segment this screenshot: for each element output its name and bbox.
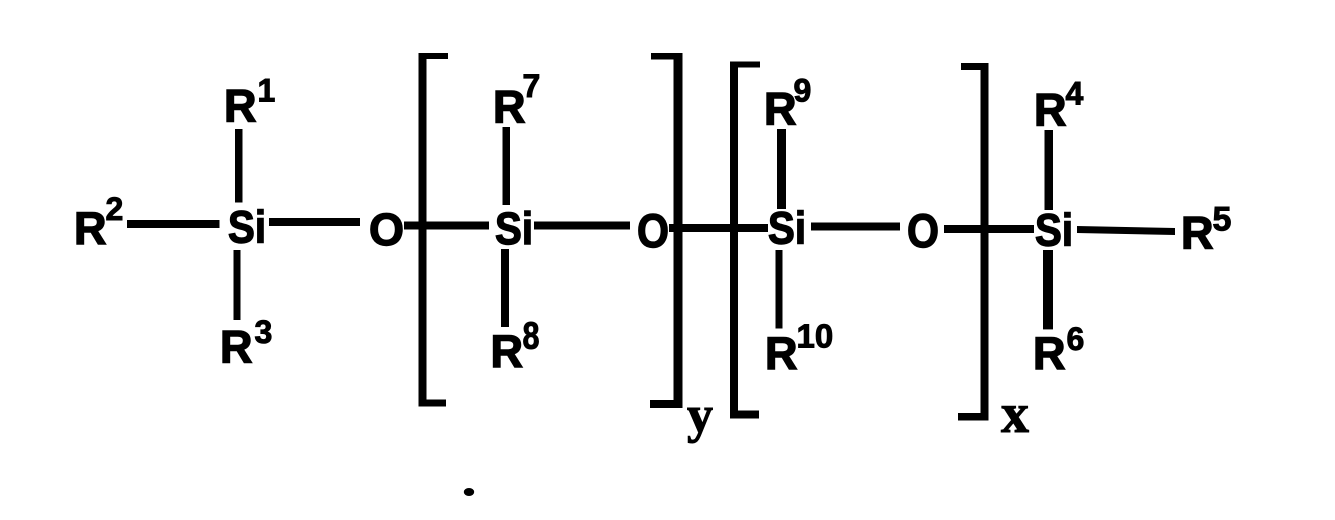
bracket right of y-group [650,53,683,408]
svg-text:R: R [491,326,524,377]
stray ink speck [464,488,474,496]
svg-text:R: R [220,322,253,373]
svg-text:R: R [765,328,798,379]
svg-text:8: 8 [523,316,540,358]
svg-text:9: 9 [794,72,812,108]
bracket left of y-group [419,53,449,407]
svg-text:O: O [369,204,404,255]
svg-text:Si: Si [228,202,266,253]
svg-text:x: x [1001,383,1029,445]
svg-text:Si: Si [495,203,533,254]
svg-text:2: 2 [106,191,124,227]
svg-text:4: 4 [1066,75,1084,111]
svg-text:Si: Si [1035,205,1073,256]
atom label R7 [493,68,540,133]
atom label R3 [220,314,272,373]
bond Si3-R10 [776,250,783,329]
atom label R10 [765,318,833,380]
bond Si1-R1 [235,129,243,203]
bond Si4-R4 [1045,130,1054,210]
svg-text:R: R [1034,85,1067,136]
svg-text:1: 1 [258,73,276,109]
atom label R8 [491,316,540,378]
svg-text:7: 7 [523,68,541,104]
svg-text:3: 3 [255,314,273,350]
bond Si2-O2 [534,222,630,230]
svg-text:O: O [907,204,939,257]
bond R2-Si1 [127,220,220,228]
svg-text:R: R [1181,208,1214,259]
bond Si1-R3 [234,250,241,320]
bond O3-Si4 [944,225,1034,233]
svg-text:y: y [687,387,713,444]
bond Si4-R5 [1077,226,1175,235]
svg-text:R: R [493,82,526,133]
svg-text:R: R [224,81,257,132]
bond Si1-O1 [269,218,360,226]
svg-text:Si: Si [768,203,806,254]
svg-text:5: 5 [1213,201,1232,239]
bond O2-Si3 [669,224,768,232]
svg-text:R: R [1033,328,1066,379]
bond Si2-R7 [503,127,511,205]
bond Si2-R8 [501,249,509,327]
bond Si4-R6 [1043,250,1053,329]
atom label R4 [1034,75,1084,135]
bond O1-Si2 [404,222,489,230]
atom label R6 [1033,321,1084,379]
atom label R2 [74,191,123,254]
atom label R9 [764,72,811,134]
bracket right of x-group [958,63,989,421]
bracket left of x-group [730,62,760,419]
svg-text:O: O [637,204,669,257]
atom label R5 [1181,201,1231,259]
svg-text:10: 10 [797,318,834,355]
svg-text:R: R [764,84,797,135]
bond Si3-O3 [811,223,900,231]
atom label R1 [224,73,275,132]
svg-text:R: R [74,203,107,254]
svg-text:6: 6 [1067,321,1085,357]
bond Si3-R9 [777,129,786,209]
